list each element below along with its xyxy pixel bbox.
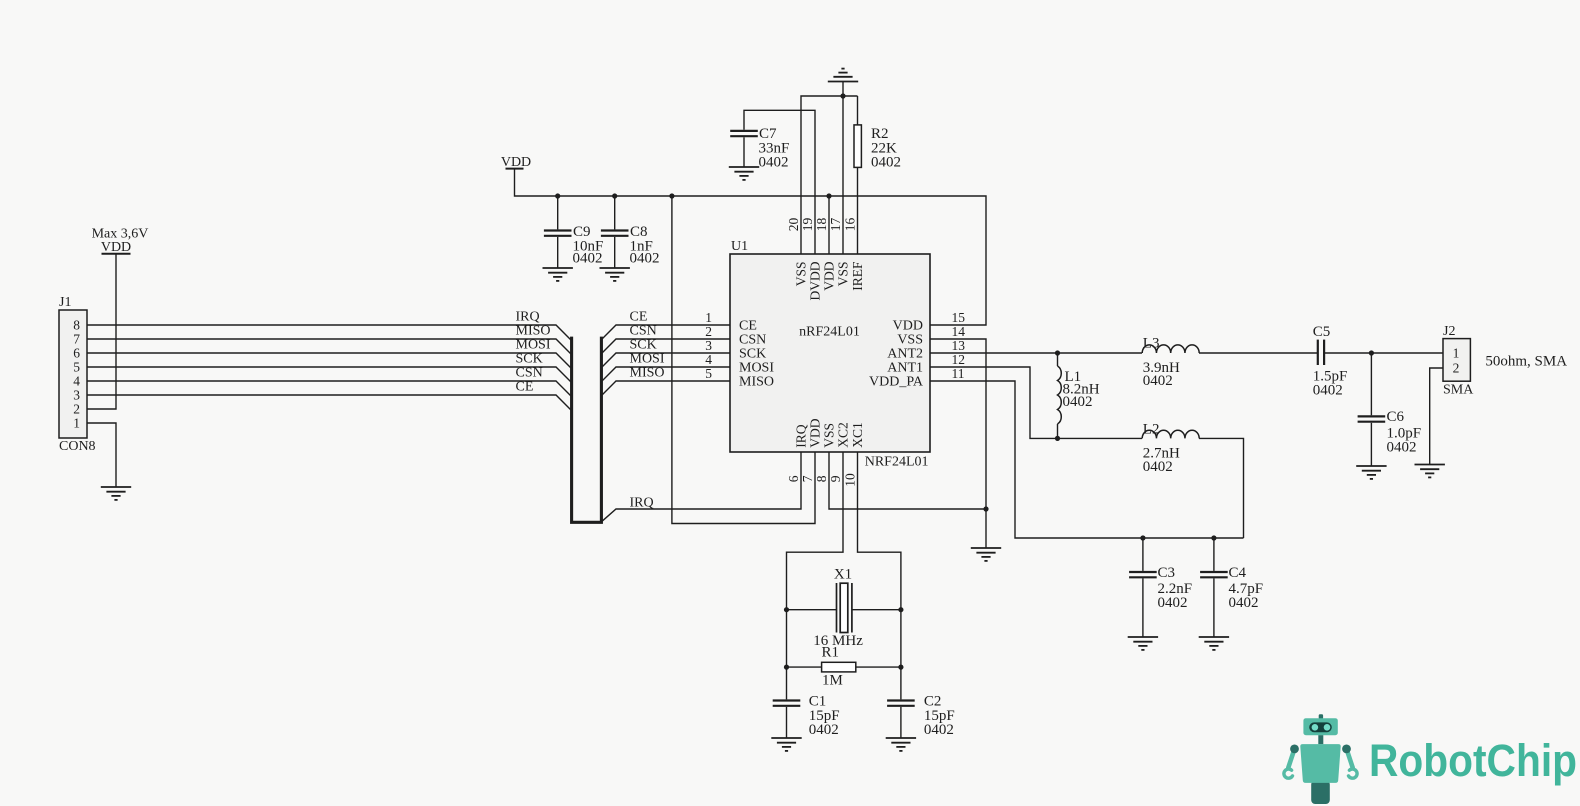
capacitor C1 15pF — [773, 701, 801, 706]
capacitor C4 4.7pF — [1213, 538, 1215, 571]
ground at C3 — [1128, 637, 1158, 650]
svg-text:VDD: VDD — [893, 319, 923, 334]
svg-text:18: 18 — [814, 218, 829, 232]
svg-text:IRQ: IRQ — [516, 310, 540, 325]
svg-text:VSS: VSS — [794, 262, 809, 287]
svg-text:12: 12 — [952, 352, 966, 367]
ground at J2 pin 2 — [1415, 465, 1445, 478]
svg-text:J1: J1 — [59, 295, 71, 310]
wire bus to U1 SCK — [601, 353, 730, 368]
ground at VSS net — [971, 548, 1001, 561]
svg-text:2: 2 — [73, 402, 80, 417]
wire J2 pin 2 to ground — [1430, 368, 1443, 465]
capacitor C3 2.2nF — [1142, 538, 1144, 571]
wire J1 IRQ into bus — [87, 325, 572, 341]
wire J1 MOSI into bus — [87, 353, 572, 369]
svg-text:MISO: MISO — [739, 375, 774, 390]
svg-text:MISO: MISO — [630, 366, 665, 381]
wire bus to U1 CSN — [601, 339, 730, 354]
svg-text:0402: 0402 — [759, 155, 789, 171]
wire bus to U1 MOSI — [601, 367, 730, 382]
svg-text:1: 1 — [705, 310, 712, 325]
svg-text:L3: L3 — [1143, 336, 1160, 352]
svg-text:7: 7 — [800, 475, 815, 482]
svg-text:0402: 0402 — [573, 251, 603, 267]
svg-text:MOSI: MOSI — [739, 361, 774, 376]
svg-text:VSS: VSS — [822, 423, 837, 448]
junction L1 bottom — [1055, 436, 1060, 441]
wire VDD branch to U1 pin 7 — [672, 196, 815, 524]
svg-text:5: 5 — [73, 360, 80, 375]
junction U1 pin18 on rail — [826, 193, 831, 198]
svg-text:VDD: VDD — [101, 240, 131, 255]
svg-text:IRQ: IRQ — [630, 496, 654, 511]
svg-text:CE: CE — [630, 310, 648, 325]
svg-text:20: 20 — [786, 218, 801, 232]
svg-text:MOSI: MOSI — [516, 338, 551, 353]
svg-text:4: 4 — [705, 352, 712, 367]
svg-text:L2: L2 — [1143, 422, 1160, 438]
logo robot — [1284, 714, 1357, 804]
svg-text:SMA: SMA — [1443, 383, 1474, 398]
svg-text:MOSI: MOSI — [630, 352, 665, 367]
svg-text:VSS: VSS — [836, 262, 851, 287]
svg-text:9: 9 — [828, 475, 843, 482]
svg-text:10: 10 — [842, 473, 857, 487]
wire J1 SCK into bus — [87, 367, 572, 383]
capacitor C2 15pF — [887, 701, 915, 706]
svg-text:6: 6 — [73, 346, 80, 361]
svg-text:U1: U1 — [731, 239, 748, 254]
svg-text:6: 6 — [786, 475, 801, 482]
wire bus to U1 pin 6 IRQ — [601, 452, 801, 522]
svg-text:RobotChip: RobotChip — [1369, 735, 1577, 786]
junction C9 on rail — [555, 193, 560, 198]
junction at top ground — [840, 93, 845, 98]
wire U1 pin17 VSS up to ground junction — [842, 96, 844, 254]
svg-text:0402: 0402 — [630, 251, 660, 267]
svg-text:CSN: CSN — [739, 333, 766, 348]
svg-text:3: 3 — [705, 338, 712, 353]
svg-text:14: 14 — [952, 324, 966, 339]
IC U1 nRF24L01 body — [730, 254, 930, 452]
capacitor C5 1.5pF — [1318, 340, 1324, 365]
svg-text:J2: J2 — [1443, 324, 1455, 339]
svg-text:CE: CE — [739, 319, 757, 334]
junction crystal left top — [784, 607, 789, 612]
svg-text:0402: 0402 — [1313, 383, 1343, 399]
svg-text:4: 4 — [73, 374, 80, 389]
svg-text:1: 1 — [1453, 346, 1460, 361]
svg-text:C3: C3 — [1158, 565, 1176, 581]
resistor R1 1M — [787, 666, 822, 668]
wire U1 pin10 XC1 to crystal right — [858, 452, 901, 699]
svg-text:2: 2 — [1453, 361, 1460, 376]
junction crystal left bottom — [784, 665, 789, 670]
svg-text:XC1: XC1 — [850, 422, 865, 448]
svg-text:ANT2: ANT2 — [887, 347, 923, 362]
inductor L3 3.9nH — [1142, 345, 1199, 353]
connector J1 CON8 — [59, 310, 87, 438]
svg-text:C6: C6 — [1387, 409, 1405, 425]
svg-text:0402: 0402 — [1158, 595, 1188, 611]
VDD rail wire to U1 pin 15 — [515, 169, 987, 325]
svg-text:VDD: VDD — [808, 418, 823, 447]
svg-text:C4: C4 — [1229, 565, 1247, 581]
svg-text:VDD: VDD — [822, 261, 837, 290]
ground at C7 — [729, 167, 759, 180]
svg-text:16: 16 — [842, 218, 857, 232]
wire L2 to VDD_PA node — [1199, 438, 1244, 538]
resistor R2 22K — [857, 96, 859, 125]
svg-text:1M: 1M — [822, 673, 843, 689]
connector J2 SMA body — [1443, 339, 1470, 382]
ground at C4 — [1199, 637, 1229, 650]
svg-text:VDD_PA: VDD_PA — [869, 375, 924, 390]
junction C3 — [1140, 535, 1145, 540]
bus (thick U) — [572, 337, 602, 523]
svg-text:IRQ: IRQ — [794, 424, 809, 448]
svg-text:8: 8 — [73, 318, 80, 333]
wire U1 pin14 VSS to ground — [930, 339, 986, 548]
wire bus to U1 MISO — [601, 381, 730, 396]
svg-text:7: 7 — [73, 332, 80, 347]
svg-text:19: 19 — [800, 218, 815, 232]
svg-text:0402: 0402 — [809, 722, 839, 738]
crystal X1 16 MHz — [787, 609, 837, 611]
svg-text:CSN: CSN — [516, 366, 543, 381]
svg-text:0402: 0402 — [1387, 440, 1417, 456]
svg-text:0402: 0402 — [1229, 595, 1259, 611]
inductor L2 2.7nH — [1142, 430, 1199, 438]
junction VSS net — [983, 506, 988, 511]
junction C6 — [1369, 350, 1374, 355]
ground (top, inverted) — [828, 69, 858, 82]
svg-text:0402: 0402 — [1063, 394, 1093, 410]
ground at C8 — [600, 268, 630, 281]
capacitor C8 1nF — [614, 196, 616, 229]
svg-text:15: 15 — [952, 310, 966, 325]
svg-text:VSS: VSS — [897, 333, 923, 348]
wire J1 CSN into bus — [87, 381, 572, 397]
svg-text:C5: C5 — [1313, 324, 1331, 340]
svg-text:0402: 0402 — [924, 722, 954, 738]
ground at J1 pin 1 — [101, 487, 131, 500]
ground at C1 — [771, 738, 801, 751]
wire U1 pin12 ANT1 to L2 — [930, 367, 1142, 438]
wire J1 MISO into bus — [87, 339, 572, 355]
svg-text:CE: CE — [516, 380, 534, 395]
ground at C2 — [886, 738, 916, 751]
junction crystal right top — [898, 607, 903, 612]
svg-text:nRF24L01: nRF24L01 — [799, 325, 860, 340]
capacitor C6 1.0pF — [1370, 353, 1372, 415]
svg-text:1: 1 — [73, 416, 80, 431]
capacitor C7 33nF — [744, 110, 815, 254]
inductor L1 8.2nH — [1057, 353, 1059, 366]
svg-text:50ohm, SMA: 50ohm, SMA — [1485, 354, 1567, 370]
svg-text:5: 5 — [705, 366, 712, 381]
svg-text:3: 3 — [73, 388, 80, 403]
svg-text:DVDD: DVDD — [808, 261, 823, 300]
wire stem to top ground symbol — [842, 82, 844, 97]
svg-text:CSN: CSN — [630, 324, 657, 339]
junction C8 on rail — [612, 193, 617, 198]
wire J1 CE into bus — [87, 395, 572, 411]
svg-text:ANT1: ANT1 — [887, 361, 923, 376]
svg-text:IREF: IREF — [850, 261, 865, 291]
svg-text:8: 8 — [814, 475, 829, 482]
junction L1 top — [1055, 350, 1060, 355]
svg-text:2: 2 — [705, 324, 712, 339]
wire U1 pin20 VSS to top ground rail — [801, 96, 858, 254]
svg-text:13: 13 — [952, 338, 966, 353]
svg-text:NRF24L01: NRF24L01 — [865, 455, 929, 470]
svg-text:11: 11 — [952, 366, 965, 381]
capacitor C9 10nF — [557, 196, 559, 229]
wire bus to U1 CE — [601, 325, 730, 340]
wire U1 pin9 XC2 to crystal left — [787, 452, 844, 699]
ground at C6 — [1356, 466, 1386, 479]
svg-text:MISO: MISO — [516, 324, 551, 339]
junction crystal right bottom — [898, 665, 903, 670]
svg-text:0402: 0402 — [1143, 459, 1173, 475]
wire U1 pin11 VDD_PA to C3 C4 node — [930, 381, 1244, 538]
wire rail to U1 pin 18 — [828, 196, 830, 254]
wire C5 to J2 pin 1 — [1324, 352, 1443, 354]
svg-text:X1: X1 — [834, 567, 852, 583]
svg-text:0402: 0402 — [1143, 373, 1173, 389]
wire VDD to J1 pin 2 — [87, 254, 116, 409]
wire J1 pin 1 to ground — [87, 423, 116, 487]
svg-text:SCK: SCK — [739, 347, 766, 362]
wire U1 pin13 ANT2 to C5 — [930, 352, 1142, 354]
svg-text:17: 17 — [828, 218, 843, 232]
wire U1 pin8 VSS to ground net — [829, 452, 986, 509]
junction VDD branch on rail — [669, 193, 674, 198]
ground at C9 — [543, 268, 573, 281]
junction C4 — [1211, 535, 1216, 540]
svg-text:CON8: CON8 — [59, 439, 96, 454]
svg-text:SCK: SCK — [516, 352, 543, 367]
svg-text:R1: R1 — [822, 645, 840, 661]
svg-text:0402: 0402 — [871, 155, 901, 171]
svg-text:SCK: SCK — [630, 338, 657, 353]
svg-text:XC2: XC2 — [836, 422, 851, 448]
